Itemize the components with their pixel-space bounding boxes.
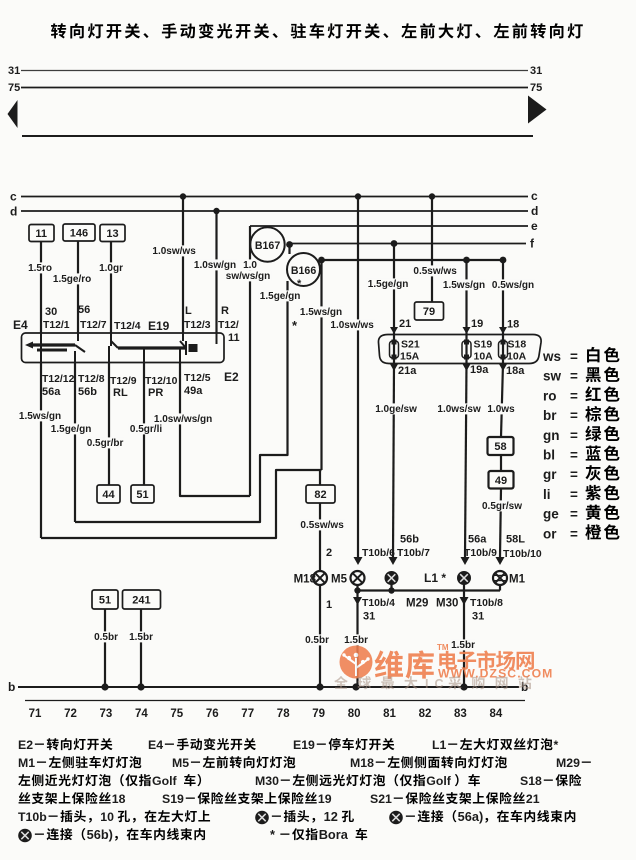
footer plug symbol (256, 812, 268, 824)
wire 56a through ground bus (463, 584, 465, 687)
svg-text:31: 31 (472, 611, 484, 623)
svg-text:T10b: T10b (18, 810, 47, 824)
connector 13 (100, 225, 125, 242)
svg-text:77: 77 (241, 708, 254, 720)
svg-text:82: 82 (314, 489, 326, 501)
node 0.5ws/gn (500, 257, 507, 264)
svg-text:gn: gn (543, 428, 560, 443)
svg-text:1.0sw/ws: 1.0sw/ws (330, 320, 374, 331)
svg-text:44: 44 (102, 489, 115, 501)
svg-text:21: 21 (526, 792, 540, 806)
svg-text:S18: S18 (508, 339, 527, 351)
svg-text:b: b (8, 680, 15, 694)
svg-text:18: 18 (112, 792, 126, 806)
track wire d (21, 210, 528, 212)
svg-text:10A: 10A (507, 351, 527, 363)
wire 56b staircase to B166 (75, 281, 288, 522)
svg-text:M1: M1 (18, 756, 35, 770)
terminal stub T12/4 (110, 333, 112, 346)
wire 1.5br T10b/4 to track b (356, 591, 358, 688)
footer line 6 (19, 830, 31, 842)
svg-text:T12/3: T12/3 (184, 320, 211, 331)
svg-text:19a: 19a (470, 364, 489, 376)
svg-text:S21: S21 (370, 792, 392, 806)
svg-text:T12/7: T12/7 (80, 320, 107, 331)
svg-text:21a: 21a (398, 365, 417, 377)
svg-text:T12/1: T12/1 (43, 320, 70, 331)
wire M5 to ground junction (356, 585, 358, 591)
fuse S19 10A (465, 340, 467, 364)
svg-text:31: 31 (363, 611, 375, 623)
svg-text:S19: S19 (474, 339, 493, 351)
track wire e (250, 225, 528, 227)
connector 82 (306, 485, 335, 503)
svg-text:E2: E2 (18, 738, 33, 752)
svg-text:=: = (570, 369, 578, 384)
svg-text:82: 82 (419, 708, 432, 720)
wire 0.5ws/gn to fuse S18 (502, 260, 504, 340)
svg-text:M18: M18 (294, 574, 317, 586)
lamp M1 parking light (493, 571, 507, 585)
svg-text:71: 71 (29, 708, 42, 720)
wire 0.5gr/li from T12/10 to connector 51 (143, 363, 145, 486)
svg-text:T10b/4: T10b/4 (362, 598, 395, 609)
svg-text:E19: E19 (148, 319, 170, 333)
svg-text:T12/8: T12/8 (78, 374, 105, 385)
connector 51 (131, 485, 154, 503)
svg-text:241: 241 (132, 595, 150, 607)
svg-text:31: 31 (8, 65, 20, 77)
watermark text (375, 643, 554, 681)
svg-text:78: 78 (277, 708, 290, 720)
connector B166 (287, 253, 320, 286)
svg-text:1.5ws/gn: 1.5ws/gn (19, 411, 61, 422)
svg-text:51: 51 (136, 489, 148, 501)
svg-text:1.0ws: 1.0ws (487, 404, 515, 415)
wire 1.0sw/ws c to T10b/6 (357, 197, 359, 558)
svg-text:21: 21 (399, 318, 411, 330)
terminal 18a arrow (499, 364, 507, 371)
svg-text:c: c (10, 190, 17, 204)
svg-text:sw: sw (543, 369, 562, 384)
wire 1.0ge/sw fuse S21 to T10b/7 (393, 364, 394, 558)
svg-text:18: 18 (507, 319, 519, 331)
continuation arrow right (528, 96, 547, 124)
node 1.5ws/gn (463, 257, 470, 264)
svg-text:L: L (185, 305, 192, 317)
svg-text:T12/: T12/ (218, 320, 239, 331)
svg-text:e: e (531, 219, 538, 233)
svg-text:ws: ws (542, 349, 561, 364)
svg-text:1.5ws/gn: 1.5ws/gn (443, 280, 485, 291)
svg-text:c: c (531, 189, 538, 203)
node on track b (352, 683, 359, 690)
svg-text:49: 49 (495, 475, 507, 487)
svg-text:ge: ge (543, 507, 559, 522)
wire 0.5sw/ws to lamp M18 (319, 503, 321, 571)
node B167 right on track f (286, 241, 293, 248)
wire 0.5br to track b (104, 609, 106, 687)
node on track b (101, 683, 108, 690)
svg-text:1.0ws/sw: 1.0ws/sw (437, 404, 481, 415)
svg-text:1.5br: 1.5br (129, 632, 153, 643)
svg-text:0.5br: 0.5br (305, 635, 329, 646)
svg-text:1.5ge/gn: 1.5ge/gn (51, 424, 92, 435)
lamp M5 front turn signal (351, 571, 365, 585)
svg-text:d: d (531, 204, 538, 218)
wire 1.5ws/gn B166 to junction (320, 260, 322, 470)
svg-text:1.0sw/ws/gn: 1.0sw/ws/gn (154, 414, 212, 425)
bus wire 75 (21, 87, 528, 89)
svg-text:84: 84 (490, 708, 503, 720)
switch contact arm right (dimmer) (111, 341, 118, 348)
svg-text:Golf: Golf (426, 774, 451, 788)
svg-text:Golf: Golf (152, 774, 177, 788)
svg-text:gr: gr (543, 467, 557, 482)
terminal 21a arrow (390, 364, 398, 371)
wire B166 branch to fuses S19 S18 (322, 259, 504, 261)
fuse panel (378, 335, 541, 364)
svg-text:72: 72 (64, 708, 77, 720)
svg-text:11: 11 (35, 228, 47, 240)
svg-text:*: * (297, 278, 302, 290)
svg-text:=: = (570, 526, 578, 541)
svg-text:T10b/10: T10b/10 (503, 549, 542, 560)
plug T10b/8 (460, 597, 469, 605)
lamp M18 side turn signal (313, 571, 327, 585)
terminal 19a arrow (463, 364, 471, 371)
svg-text:73: 73 (100, 708, 113, 720)
node on track b (460, 683, 467, 690)
wire into ground bus (390, 584, 392, 591)
wire 1.5ge/gn f to fuse S21 (393, 244, 395, 341)
wire 1.5ro to T12/1 (40, 242, 42, 334)
svg-text:M5: M5 (331, 574, 348, 586)
fuse S18 10A (502, 340, 504, 364)
node 56b ground (388, 587, 394, 593)
svg-text:56a): 56a) (458, 809, 484, 824)
svg-text:146: 146 (70, 228, 88, 240)
wire 1.5br to track b (140, 609, 142, 687)
svg-text:56: 56 (78, 304, 90, 316)
svg-text:ro: ro (543, 388, 557, 403)
svg-text:E4: E4 (13, 318, 28, 332)
bus wire 31 (21, 70, 528, 72)
terminal stub T12/9 (108, 346, 110, 363)
wire 1.5br T10b/8 to track b (450, 639, 476, 650)
wire 49a 1.0sw/ws/gn U-jumper (180, 363, 250, 497)
svg-text:75: 75 (8, 82, 20, 94)
svg-text:74: 74 (135, 708, 148, 720)
svg-text:58: 58 (494, 441, 506, 453)
svg-text:li: li (543, 487, 551, 502)
svg-text:15A: 15A (400, 351, 420, 363)
svg-text:76: 76 (206, 708, 219, 720)
svg-text:S19: S19 (162, 792, 184, 806)
svg-text:B166: B166 (291, 265, 316, 277)
switch contact T12/5 detail (185, 341, 187, 355)
watermark logo (340, 646, 373, 679)
svg-text:0.5gr/li: 0.5gr/li (130, 424, 162, 435)
svg-text:56b: 56b (78, 386, 97, 398)
svg-text:T10b/9: T10b/9 (464, 548, 497, 559)
svg-text:80: 80 (348, 708, 361, 720)
wire 1.0gr to T12/4 (110, 242, 112, 334)
plug T10b/7 (389, 557, 398, 565)
plug T10b/9 (461, 557, 470, 565)
wire e 1.0sw/ws/gn vertical (249, 226, 251, 496)
wire 1.5ge/ro to T12/7 (77, 242, 79, 334)
terminal 21 arrow (390, 327, 398, 334)
svg-text:d: d (10, 205, 17, 219)
svg-text:1.5ge/ro: 1.5ge/ro (53, 274, 91, 285)
svg-text:1.5ge/gn: 1.5ge/gn (260, 291, 301, 302)
svg-text:13: 13 (106, 228, 118, 240)
svg-text:81: 81 (383, 708, 396, 720)
wire R 1.0sw/gn to T12/11 (215, 211, 217, 333)
wire 0.5gr/br from T12/9 to connector 44 (108, 363, 110, 486)
track wire f (289, 243, 526, 245)
plug T10b/10 (496, 557, 505, 565)
ground bus of headlamp area (358, 589, 501, 591)
svg-text:IC: IC (425, 677, 450, 691)
wire 1.0ws/sw fuse S19 to T10b/9 (465, 364, 467, 558)
svg-text:E2: E2 (224, 370, 239, 384)
svg-text:12: 12 (324, 809, 338, 824)
svg-text:M30: M30 (436, 598, 458, 610)
svg-text:19: 19 (471, 318, 483, 330)
svg-text:0.5br: 0.5br (94, 632, 118, 643)
svg-text:S18: S18 (520, 774, 542, 788)
svg-text:1.5ge/gn: 1.5ge/gn (368, 279, 409, 290)
svg-text:*: * (270, 827, 275, 842)
terminal stub T12/8 (74, 351, 76, 363)
svg-text:56a: 56a (468, 534, 487, 546)
footer text line (19, 792, 31, 803)
wire stub into connector 82 (319, 470, 321, 485)
connector 44 (97, 485, 120, 503)
svg-text:T12/4: T12/4 (114, 321, 141, 332)
svg-text:br: br (543, 408, 557, 423)
svg-text:S21: S21 (401, 339, 420, 351)
footer connection 56a symbol (390, 812, 402, 824)
svg-text:11: 11 (228, 332, 240, 344)
svg-text:10: 10 (100, 810, 114, 824)
svg-text:1: 1 (326, 599, 332, 611)
connector 49 (489, 471, 514, 489)
connection 56a symbol (458, 572, 470, 584)
svg-text:E4: E4 (148, 738, 163, 752)
svg-text:1.0ge/sw: 1.0ge/sw (375, 404, 417, 415)
svg-text:1.0gr: 1.0gr (99, 263, 123, 274)
svg-text:=: = (570, 388, 578, 403)
svg-text:51: 51 (99, 595, 111, 607)
footer text line (18, 774, 30, 786)
svg-text:2: 2 (326, 547, 332, 559)
svg-text:Bora: Bora (319, 827, 349, 842)
node on track b (137, 683, 144, 690)
svg-text:79: 79 (312, 708, 325, 720)
node on track c 1.0sw/ws (355, 193, 361, 199)
svg-text:1.5br: 1.5br (451, 640, 475, 651)
svg-text:T12/12: T12/12 (42, 374, 75, 385)
terminal stub T12/12 (40, 345, 42, 363)
connector B167 (250, 227, 284, 261)
svg-text:TM: TM (437, 643, 449, 652)
node on track d for wire R (213, 208, 219, 214)
svg-text:56b: 56b (400, 534, 419, 546)
title (51, 23, 66, 38)
svg-text:=: = (570, 349, 578, 364)
continuation arrow left (8, 100, 18, 128)
svg-text:=: = (570, 467, 578, 482)
svg-text:31: 31 (530, 65, 542, 77)
plug T10b/4 (353, 597, 362, 605)
svg-text:18a: 18a (506, 365, 525, 377)
svg-text:0.5ws/gn: 0.5ws/gn (492, 280, 534, 291)
node M18 on track b (316, 683, 323, 690)
plug T10b/6 (354, 557, 363, 565)
svg-text:79: 79 (423, 306, 435, 318)
ground track b (18, 686, 519, 688)
terminal 18 arrow (499, 327, 507, 334)
wire B167 to B166 (288, 245, 290, 255)
svg-text:T10b/7: T10b/7 (397, 548, 430, 559)
svg-text:T12/10: T12/10 (145, 376, 178, 387)
svg-text:sw/ws/gn: sw/ws/gn (226, 271, 270, 282)
svg-text:1.0sw/ws: 1.0sw/ws (152, 246, 196, 257)
svg-text:PR: PR (148, 387, 163, 399)
svg-text:=: = (570, 507, 578, 522)
svg-text:75: 75 (170, 708, 183, 720)
svg-text:B167: B167 (255, 240, 280, 252)
terminal 19 arrow (463, 327, 471, 334)
wire M1 to ground bus (499, 585, 501, 591)
node on track c 0.5sw/ws (429, 193, 435, 199)
svg-text:0.5sw/ws: 0.5sw/ws (300, 520, 344, 531)
svg-text:T10b/8: T10b/8 (470, 598, 503, 609)
svg-text:49a: 49a (184, 385, 203, 397)
terminal stub T12/7 (77, 333, 79, 341)
svg-text:RL: RL (113, 387, 128, 399)
svg-text:=: = (570, 408, 578, 423)
svg-text:1.5ws/gn: 1.5ws/gn (300, 307, 342, 318)
svg-text:1.5ro: 1.5ro (28, 263, 52, 274)
track wire c (21, 196, 528, 198)
connector 146 (63, 224, 95, 241)
svg-text:E19: E19 (293, 738, 315, 752)
terminal stub T12/10 (143, 348, 145, 363)
wire 0.5br M18 to ground track b (319, 585, 321, 687)
svg-text:=: = (570, 487, 578, 502)
connector 51 lower (92, 590, 118, 609)
svg-text:83: 83 (454, 708, 467, 720)
svg-text:M29: M29 (556, 756, 580, 770)
svg-text:10A: 10A (474, 351, 494, 363)
connector 11 (29, 225, 54, 242)
terminal stub T12/1 (40, 333, 42, 346)
wire L 1.0sw/ws to T12/3 (182, 197, 184, 334)
svg-text:R: R (221, 305, 229, 317)
wire 0.5sw/ws c to connector 79 (431, 197, 433, 303)
svg-text:56b): 56b) (87, 827, 113, 842)
connection 56b symbol (385, 572, 397, 584)
wire 1.0ws fuse S18 to connector 58 (501, 364, 503, 438)
svg-text:58L: 58L (506, 534, 525, 546)
svg-text:M29: M29 (406, 598, 428, 610)
terminal stub T12/11 (216, 333, 218, 344)
connector 79 (415, 302, 444, 320)
svg-text:1.0: 1.0 (243, 260, 257, 271)
connector 58 (488, 437, 514, 455)
svg-text:T12/5: T12/5 (184, 373, 211, 384)
fuse S21 15A (393, 340, 395, 364)
switch assembly box E4 E19 E2 (22, 333, 225, 363)
node on track c for wire L (180, 193, 186, 199)
switch contact arm left (turn signal) (25, 342, 33, 349)
header base wire (22, 135, 533, 137)
svg-text:0.5gr/sw: 0.5gr/sw (482, 501, 522, 512)
node M5 ground (354, 587, 360, 593)
terminal stub T12/3 (182, 333, 184, 341)
svg-text:M30: M30 (255, 774, 279, 788)
svg-text:0.5gr/br: 0.5gr/br (87, 438, 124, 449)
svg-text:30: 30 (45, 306, 57, 318)
svg-text:0.5sw/ws: 0.5sw/ws (413, 266, 457, 277)
svg-text:19: 19 (318, 792, 332, 806)
wire 58 to 49 (500, 455, 502, 471)
node B166 right (318, 257, 325, 264)
svg-text:bl: bl (543, 448, 555, 463)
svg-text:M5: M5 (172, 756, 189, 770)
wire 56a horizontal run (41, 470, 322, 538)
wire 56a 1.5ws/gn from T12/12 (40, 363, 42, 539)
separator line (25, 700, 525, 702)
svg-text:1.5br: 1.5br (344, 635, 368, 646)
node on track f (391, 240, 398, 247)
svg-text:or: or (543, 526, 557, 541)
svg-text:56a: 56a (42, 386, 61, 398)
terminal stub T12/5 (179, 348, 181, 363)
svg-text:*: * (554, 738, 559, 752)
svg-text:M18: M18 (350, 756, 374, 770)
svg-text:=: = (570, 448, 578, 463)
svg-text:L1 *: L1 * (424, 571, 446, 585)
svg-text:1.0sw/gn: 1.0sw/gn (194, 260, 236, 271)
wire 1.5ws/gn to fuse S19 (465, 260, 467, 340)
svg-text:=: = (570, 428, 578, 443)
wire 56b 1.5ge/gn from T12/8 (74, 363, 76, 523)
svg-text:L1: L1 (432, 738, 447, 752)
svg-text:75: 75 (530, 82, 542, 94)
wire 0.5gr/sw to T10b/10 (500, 489, 501, 558)
svg-text:T12/9: T12/9 (110, 376, 137, 387)
connector 241 (123, 590, 161, 609)
svg-text:M1: M1 (509, 574, 526, 586)
